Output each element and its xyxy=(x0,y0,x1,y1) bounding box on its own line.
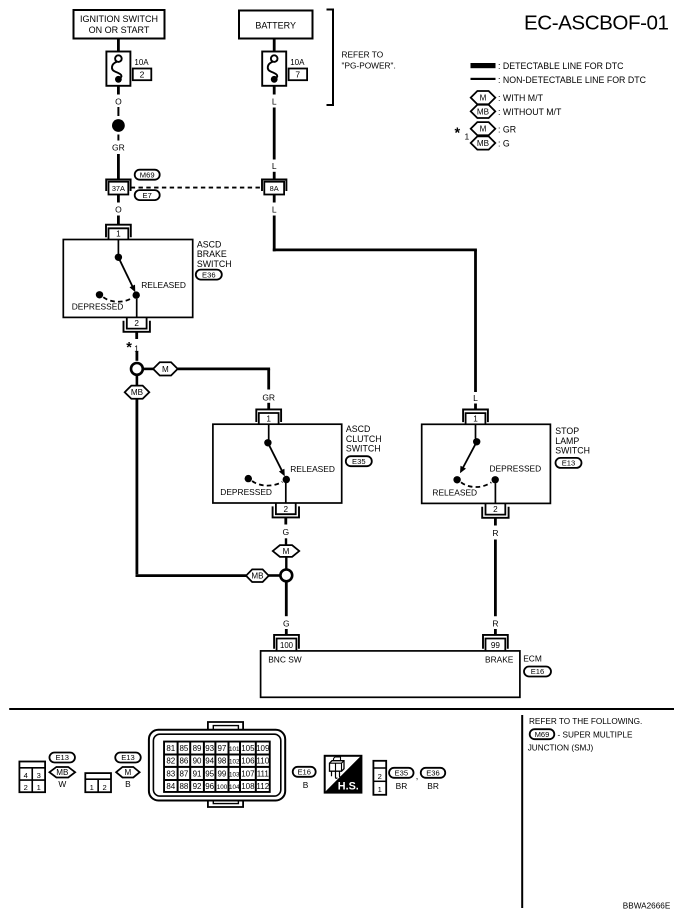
svg-text:,: , xyxy=(416,771,419,781)
svg-text:100: 100 xyxy=(280,641,294,650)
power source: IGNITION SWITCH ON OR START box xyxy=(74,10,165,39)
svg-text:MB: MB xyxy=(56,768,68,777)
terminal 2 of ASCD brake switch xyxy=(127,317,147,328)
svg-text:M: M xyxy=(283,547,290,556)
ECM connector pin grid xyxy=(163,741,271,793)
splice circle node at ECM brake feed xyxy=(280,570,292,582)
wire stub below clutch terminal 2 (G) xyxy=(284,518,287,525)
svg-text:BBWA2666E: BBWA2666E xyxy=(623,901,671,910)
power source: BATTERY box xyxy=(239,11,313,39)
brake switch internal wire from pin 1 xyxy=(117,240,119,255)
connector ref E16 oval (view) xyxy=(293,767,316,777)
svg-text:4: 4 xyxy=(24,771,28,780)
SMJ terminal 37A xyxy=(106,180,130,192)
svg-text:EC-ASCBOF-01: EC-ASCBOF-01 xyxy=(524,12,669,35)
svg-text:99: 99 xyxy=(217,769,226,778)
stop lamp switch common contact dot xyxy=(473,438,480,445)
dashed arc depressed position xyxy=(252,481,282,486)
connector ref E35 oval (view) xyxy=(389,768,414,778)
svg-text:BR: BR xyxy=(427,781,439,791)
wire: L to SMJ 8A upper segment xyxy=(273,108,276,160)
wire segment below splice xyxy=(117,135,119,141)
connector view E13 2-pin body xyxy=(85,773,111,792)
svg-text:101: 101 xyxy=(229,746,240,753)
brake switch internal wire to pin 2 xyxy=(136,299,138,318)
H.S. view direction mark xyxy=(325,756,362,793)
svg-text:103: 103 xyxy=(229,771,240,778)
legend: *1 wire color MB = G xyxy=(471,136,496,149)
svg-text:RELEASED: RELEASED xyxy=(432,487,477,497)
svg-text:90: 90 xyxy=(193,757,202,766)
stop lamp switch internal wire from pin 1 xyxy=(475,424,477,438)
dashed wire *1 to splice circle xyxy=(135,352,138,361)
svg-text:107: 107 xyxy=(241,769,255,778)
svg-text:GR: GR xyxy=(112,143,125,153)
svg-text:112: 112 xyxy=(256,782,269,791)
terminal 1 of stop lamp switch xyxy=(463,410,488,423)
clutch switch DEPRESSED contact dot xyxy=(245,475,252,482)
svg-text:M: M xyxy=(480,125,487,134)
svg-text:E35: E35 xyxy=(352,457,366,466)
wire: L into stop lamp switch terminal 1 xyxy=(474,404,477,410)
bracket: refer to PG-POWER xyxy=(327,10,334,106)
svg-text:105: 105 xyxy=(241,744,255,753)
svg-text:DEPRESSED: DEPRESSED xyxy=(72,302,124,312)
svg-text:: G: : G xyxy=(498,139,510,149)
connector ref M69 oval xyxy=(135,170,160,180)
svg-text:E7: E7 xyxy=(143,191,152,200)
svg-text:1: 1 xyxy=(378,785,382,794)
svg-text:109: 109 xyxy=(256,744,270,753)
svg-text:LAMP: LAMP xyxy=(555,436,579,446)
svg-text:82: 82 xyxy=(166,757,175,766)
svg-text:102: 102 xyxy=(229,759,240,766)
svg-text:111: 111 xyxy=(257,769,270,778)
svg-text:L: L xyxy=(272,161,277,171)
svg-text:E36: E36 xyxy=(202,270,216,279)
svg-text:: GR: : GR xyxy=(498,124,516,134)
svg-text:L: L xyxy=(272,205,277,215)
svg-text:M: M xyxy=(125,768,132,777)
stop lamp switch DEPRESSED contact dot xyxy=(492,476,499,483)
wire: SMJ 8A down (L) xyxy=(273,195,276,203)
legend: non-detectable line sample xyxy=(471,78,496,80)
svg-text:DEPRESSED: DEPRESSED xyxy=(490,463,542,473)
wire segment G to M symbol xyxy=(285,538,287,545)
ECM box E16 xyxy=(261,651,520,697)
svg-text:O: O xyxy=(115,204,122,214)
svg-text:R: R xyxy=(492,619,498,629)
svg-text:106: 106 xyxy=(241,757,255,766)
svg-text:B: B xyxy=(125,779,131,789)
ECM connector view body outer xyxy=(149,730,285,801)
svg-text:ASCD: ASCD xyxy=(346,424,370,434)
SMJ terminal 8A xyxy=(262,180,286,192)
wire: O to brake switch terminal 1 xyxy=(117,216,120,225)
svg-text:O: O xyxy=(115,97,122,107)
clutch switch common contact dot xyxy=(264,439,271,446)
connector ref E36 oval (view) xyxy=(421,768,446,778)
svg-text:L: L xyxy=(272,97,277,107)
connector view E35/E36 2-pin body xyxy=(373,761,386,795)
wire stub below stop lamp terminal 2 (R) xyxy=(494,518,497,526)
wire: fuse 7 down (L) xyxy=(273,86,276,95)
svg-text:1: 1 xyxy=(266,414,271,423)
wire segment O to splice xyxy=(117,107,119,116)
divider vertical line of footnote column xyxy=(521,715,523,908)
svg-text:10A: 10A xyxy=(134,58,149,67)
svg-text:E16: E16 xyxy=(297,768,311,777)
terminal 2 of ASCD clutch switch xyxy=(276,503,296,514)
terminal 1 of ASCD brake switch xyxy=(106,225,131,238)
ECM connector view body inner xyxy=(153,734,280,796)
svg-text:: WITHOUT M/T: : WITHOUT M/T xyxy=(498,107,562,117)
svg-text:97: 97 xyxy=(217,744,226,753)
svg-text:1: 1 xyxy=(465,132,470,142)
svg-text:1: 1 xyxy=(473,415,478,424)
connector symbol MB (without M/T) below splice xyxy=(136,375,139,387)
ASCD brake switch box E36 xyxy=(63,240,192,318)
connector ref E13 oval (2-pin view) xyxy=(115,753,141,763)
svg-text:88: 88 xyxy=(179,782,188,791)
wire into SMJ terminal 8A xyxy=(273,172,276,180)
splice junction dot xyxy=(112,119,125,132)
svg-text:L: L xyxy=(473,393,478,403)
svg-text:G: G xyxy=(283,619,290,629)
svg-text:85: 85 xyxy=(179,744,188,753)
svg-text:2: 2 xyxy=(493,505,498,514)
svg-text:BNC SW: BNC SW xyxy=(268,655,302,665)
connector ref E7 oval xyxy=(135,190,160,200)
svg-text:JUNCTION (SMJ): JUNCTION (SMJ) xyxy=(528,743,594,752)
svg-text:E13: E13 xyxy=(562,459,576,468)
wire: SMJ 37A down (O) xyxy=(117,195,120,203)
wire: GR to SMJ terminal 37A xyxy=(117,154,120,180)
svg-text:- SUPER MULTIPLE: - SUPER MULTIPLE xyxy=(558,730,633,739)
stop lamp switch RELEASED contact dot xyxy=(453,476,460,483)
dashed arc depressed position xyxy=(103,297,132,302)
wire: GR into clutch switch terminal 1 xyxy=(267,403,270,410)
svg-text:REFER TO: REFER TO xyxy=(342,50,384,60)
wire stub into ECM terminal 100 xyxy=(285,629,288,635)
separator line above connector views xyxy=(9,708,674,710)
svg-text:MB: MB xyxy=(131,388,143,397)
svg-text:MB: MB xyxy=(477,107,489,116)
svg-text:BRAKE: BRAKE xyxy=(197,249,227,259)
svg-text:H.S.: H.S. xyxy=(338,781,359,793)
svg-text:STOP: STOP xyxy=(555,426,579,436)
svg-text:IGNITION SWITCH: IGNITION SWITCH xyxy=(80,14,158,24)
legend: detectable line sample xyxy=(471,63,496,68)
svg-text:M: M xyxy=(480,94,487,103)
splice circle node (M/T vs A/T wiring) xyxy=(131,363,143,375)
svg-text:108: 108 xyxy=(241,782,255,791)
svg-text:*: * xyxy=(455,126,461,142)
brake switch common contact dot xyxy=(115,254,122,261)
brake switch DEPRESSED contact dot xyxy=(96,291,103,298)
connector symbol MB (4-pin view) xyxy=(49,767,75,778)
svg-text:93: 93 xyxy=(205,744,214,753)
wire stub below brake switch terminal 2 xyxy=(135,332,138,339)
svg-text:98: 98 xyxy=(217,757,226,766)
svg-text:104: 104 xyxy=(229,784,240,791)
stop lamp switch box E13 xyxy=(422,424,551,503)
connector view E13 4-pin body xyxy=(19,762,45,793)
svg-text:89: 89 xyxy=(193,744,202,753)
connector ref E36 oval xyxy=(196,270,222,280)
svg-text:E35: E35 xyxy=(395,769,409,778)
svg-text:95: 95 xyxy=(205,769,214,778)
wire: MB branch horizontal to MB symbol xyxy=(136,574,247,577)
clutch switch internal wire from pin 1 xyxy=(268,424,270,439)
stop lamp switch arm with arrow to RELEASED (lower-left) xyxy=(463,442,477,468)
wire: L down and right to stop lamp switch xyxy=(273,216,276,252)
terminal 100 of ECM (BNC SW) xyxy=(274,635,299,649)
brake switch RELEASED contact dot xyxy=(133,291,140,298)
svg-text:M69: M69 xyxy=(535,730,550,739)
svg-text:110: 110 xyxy=(256,757,269,766)
H.S. connector glyph xyxy=(330,761,345,772)
fuse 2 10A xyxy=(106,52,130,86)
svg-text:W: W xyxy=(58,779,66,789)
wire: M branch to ASCD clutch switch xyxy=(178,367,270,370)
stop lamp switch internal wire to pin 2 xyxy=(494,483,496,503)
clutch switch arm with arrow to RELEASED xyxy=(268,443,282,471)
svg-text:87: 87 xyxy=(179,769,188,778)
connector ref E13 oval xyxy=(556,458,582,468)
svg-text:8A: 8A xyxy=(270,184,279,193)
svg-text:RELEASED: RELEASED xyxy=(141,280,186,290)
svg-text:MB: MB xyxy=(251,572,263,581)
svg-text:96: 96 xyxy=(205,782,214,791)
svg-text:GR: GR xyxy=(262,392,275,402)
fuse 7 10A xyxy=(262,52,286,86)
brake switch arm with arrow to RELEASED xyxy=(118,257,132,287)
svg-text:CLUTCH: CLUTCH xyxy=(346,434,382,444)
svg-text:M69: M69 xyxy=(140,170,155,179)
footnote M69 oval - SUPER MULTIPLE xyxy=(530,729,555,739)
svg-text:10A: 10A xyxy=(290,58,305,67)
wire: ignition switch to fuse 2 xyxy=(117,39,120,52)
terminal 1 of ASCD clutch switch xyxy=(256,409,281,422)
connector ref E16 oval xyxy=(524,667,551,677)
svg-text:E13: E13 xyxy=(121,753,135,762)
svg-text:7: 7 xyxy=(295,70,300,80)
connector symbol M (with M/T) on branch xyxy=(143,368,154,371)
svg-text:DEPRESSED: DEPRESSED xyxy=(220,487,272,497)
wire segment M symbol to splice circle xyxy=(285,557,287,570)
ASCD clutch switch box E35 xyxy=(213,424,342,503)
svg-text:SWITCH: SWITCH xyxy=(346,444,381,454)
svg-text:R: R xyxy=(492,528,498,538)
connector symbol M (2-pin view) xyxy=(116,767,139,778)
svg-text:2: 2 xyxy=(284,505,289,514)
connector ref E13 oval (4-pin view) xyxy=(49,753,74,763)
legend: M connector symbol = with M/T xyxy=(471,91,496,104)
svg-text:86: 86 xyxy=(179,757,188,766)
svg-text:: NON-DETECTABLE LINE FOR DTC: : NON-DETECTABLE LINE FOR DTC xyxy=(498,75,647,85)
svg-text:84: 84 xyxy=(166,782,175,791)
svg-text:SWITCH: SWITCH xyxy=(197,259,232,269)
connector symbol MB joining splice xyxy=(246,569,269,582)
svg-text:1: 1 xyxy=(116,230,121,239)
svg-text:: WITH M/T: : WITH M/T xyxy=(498,93,544,103)
svg-text:2: 2 xyxy=(378,772,382,781)
ECM connector bottom tab xyxy=(208,801,243,807)
svg-text:92: 92 xyxy=(193,782,202,791)
legend: MB connector symbol = without M/T xyxy=(471,105,496,118)
dashed SMJ link line 37A to 8A xyxy=(131,187,262,189)
dashed arc released-depressed xyxy=(461,482,491,487)
svg-text:100: 100 xyxy=(217,784,228,791)
svg-text:E13: E13 xyxy=(55,753,69,762)
svg-text:G: G xyxy=(282,527,289,537)
svg-text:*: * xyxy=(126,340,132,356)
clutch switch internal wire to pin 2 xyxy=(285,483,287,503)
svg-text:2: 2 xyxy=(134,319,139,328)
svg-text:94: 94 xyxy=(205,757,214,766)
svg-text:E36: E36 xyxy=(426,769,440,778)
svg-text:SWITCH: SWITCH xyxy=(555,446,590,456)
wire: splice down to ECM (G) xyxy=(285,582,288,617)
svg-text:1: 1 xyxy=(90,783,94,792)
connector ref E35 oval xyxy=(346,456,372,466)
svg-text:BR: BR xyxy=(396,781,408,791)
svg-text:M: M xyxy=(162,365,169,374)
svg-text:99: 99 xyxy=(491,641,501,650)
svg-text:81: 81 xyxy=(166,744,175,753)
svg-text:B: B xyxy=(303,780,309,790)
wire: fuse 2 down (O) xyxy=(117,86,120,95)
wire: R down to ECM xyxy=(494,540,497,617)
terminal 99 of ECM (BRAKE) xyxy=(483,635,508,649)
terminal 2 of stop lamp switch xyxy=(486,503,506,514)
svg-text:2: 2 xyxy=(24,783,28,792)
ECM connector top tab xyxy=(208,722,243,729)
svg-text:E16: E16 xyxy=(531,667,545,676)
svg-text:"PG-POWER".: "PG-POWER". xyxy=(342,61,396,71)
svg-text:2: 2 xyxy=(102,783,106,792)
svg-text:: DETECTABLE LINE FOR DTC: : DETECTABLE LINE FOR DTC xyxy=(498,61,624,71)
svg-text:ECM: ECM xyxy=(523,654,542,664)
connector symbol M on G wire xyxy=(273,545,300,557)
wire: MB branch down xyxy=(135,399,138,574)
clutch switch RELEASED contact dot xyxy=(283,476,290,483)
svg-text:BATTERY: BATTERY xyxy=(255,21,296,31)
wire stub into ECM terminal 99 xyxy=(494,629,497,635)
svg-text:2: 2 xyxy=(140,70,145,80)
svg-text:ASCD: ASCD xyxy=(197,240,221,250)
svg-text:BRAKE: BRAKE xyxy=(485,655,514,665)
wire: battery to fuse 7 xyxy=(273,39,276,52)
svg-text:ON OR START: ON OR START xyxy=(89,25,150,35)
svg-text:37A: 37A xyxy=(112,184,125,193)
svg-text:83: 83 xyxy=(166,769,175,778)
svg-text:RELEASED: RELEASED xyxy=(290,464,335,474)
svg-text:REFER TO THE FOLLOWING.: REFER TO THE FOLLOWING. xyxy=(529,717,642,726)
svg-text:MB: MB xyxy=(477,139,489,148)
svg-text:3: 3 xyxy=(37,771,41,780)
svg-text:91: 91 xyxy=(193,769,202,778)
svg-text:1: 1 xyxy=(37,783,41,792)
